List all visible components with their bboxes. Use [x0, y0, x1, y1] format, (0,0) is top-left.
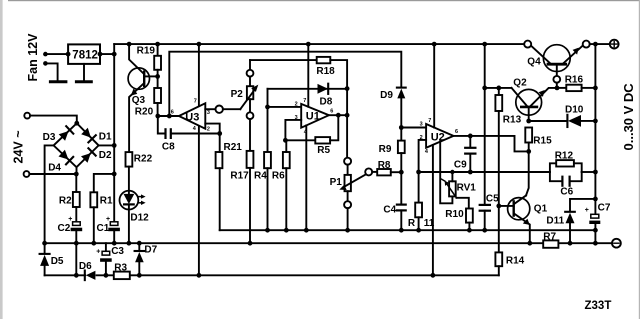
wire U1 pin7 to top bus	[307, 44, 309, 107]
transistor Q2	[512, 77, 558, 121]
svg-text:11: 11	[424, 218, 435, 229]
label 0...30 V DC	[621, 83, 636, 151]
wire 7812 ground pin	[83, 64, 85, 81]
svg-text:+: +	[96, 249, 100, 256]
wire 24V bottom to bridge	[29, 173, 76, 175]
wire U2 pin5 to RV1 bottom	[440, 142, 452, 204]
node feedback C9	[468, 170, 473, 175]
svg-text:RV1: RV1	[457, 183, 477, 194]
capacitor C8	[162, 129, 175, 153]
wire 24V top to bridge	[30, 116, 77, 124]
capacitor C9	[454, 136, 476, 172]
svg-text:C3: C3	[111, 246, 124, 257]
potentiometer P2	[231, 60, 259, 151]
wire right rail	[594, 44, 596, 214]
svg-text:R13: R13	[503, 114, 522, 125]
svg-text:U3: U3	[185, 111, 199, 123]
node upper bus P1	[345, 228, 350, 233]
wire feedback line	[419, 171, 550, 173]
svg-text:R4: R4	[254, 170, 267, 181]
node top bus C5 rail	[482, 42, 487, 47]
terminal plus	[610, 40, 619, 49]
svg-text:D1: D1	[99, 132, 112, 143]
node bridge AC bottom	[74, 172, 79, 177]
node U1 output P1 column	[345, 113, 350, 118]
wire D8 junction down to P1	[346, 89, 348, 158]
svg-text:R17: R17	[230, 170, 249, 181]
transistor Q4	[527, 45, 583, 88]
node 7812 left pin	[66, 52, 71, 57]
wire C2 column jumper to bottom bus	[75, 243, 77, 275]
svg-text:3: 3	[207, 110, 210, 116]
node bottom bus D7	[137, 273, 142, 278]
wire U2 pin4 to bottom bus	[432, 145, 434, 275]
svg-text:R14: R14	[506, 255, 525, 266]
svg-text:P2: P2	[231, 89, 244, 100]
node mid bus C1	[112, 241, 117, 246]
node Q4 base R16	[555, 86, 560, 91]
node U3 output riser	[167, 114, 172, 119]
resistor R5	[285, 115, 338, 156]
svg-text:7812: 7812	[72, 50, 98, 62]
node upper bus R6	[284, 228, 289, 233]
node top bus U2 pin7	[432, 42, 437, 47]
svg-text:C8: C8	[162, 141, 175, 152]
node upper bus U1 pin4	[304, 228, 309, 233]
svg-text:D6: D6	[79, 261, 92, 272]
wire U2 pin3	[401, 127, 426, 129]
resistor R17	[230, 151, 253, 243]
svg-text:U1: U1	[306, 111, 320, 123]
wire U2 pin7 to top bus	[433, 44, 435, 128]
wire C8 branch	[158, 116, 220, 134]
svg-text:7: 7	[194, 99, 197, 105]
node feedback U2 pin2	[416, 170, 421, 175]
resistor R7	[543, 232, 558, 248]
svg-text:D11: D11	[546, 216, 564, 227]
svg-text:R10: R10	[445, 209, 464, 220]
node U3 output R20	[155, 114, 160, 119]
wire RV1 wiper to R10	[456, 198, 468, 209]
svg-text:D7: D7	[144, 244, 157, 255]
node upper bus R4	[265, 228, 270, 233]
svg-text:R18: R18	[316, 66, 335, 77]
wire U3 pin4 to bottom bus	[198, 126, 200, 275]
resistor R13	[495, 88, 521, 253]
label Fan 12V	[26, 33, 40, 82]
node raw rail / 7812	[112, 52, 117, 57]
svg-text:R8: R8	[378, 160, 391, 171]
resistor R12	[550, 150, 582, 172]
wire second line (raw rail to D9)	[169, 52, 401, 116]
wire R13 Q2 collector line	[485, 87, 512, 89]
bridge diamond wires	[54, 123, 99, 174]
svg-text:P1: P1	[330, 177, 343, 188]
capacitor C6	[550, 172, 582, 198]
resistor R16	[557, 74, 595, 91]
resistor R4	[254, 89, 271, 230]
svg-text:Q4: Q4	[527, 57, 541, 68]
wire C5 bypass rail	[484, 44, 486, 205]
svg-text:R9: R9	[379, 144, 392, 155]
svg-text:D9: D9	[380, 90, 393, 101]
wire U3 pin3	[205, 108, 215, 110]
svg-text:D5: D5	[51, 256, 64, 267]
svg-text:7: 7	[428, 118, 431, 124]
svg-text:2: 2	[295, 101, 298, 107]
node mid bus D12	[126, 241, 131, 246]
resistor R15	[525, 128, 552, 152]
label Z33T	[585, 300, 612, 312]
node mid bus R17	[248, 241, 253, 246]
diode D10	[529, 104, 596, 127]
svg-text:C9: C9	[454, 160, 467, 171]
op-amp U3	[171, 99, 210, 133]
node mid bus bridge-left	[42, 241, 47, 246]
ground 7812	[76, 80, 91, 83]
node top bus right rail	[593, 42, 598, 47]
svg-text:6: 6	[171, 109, 174, 115]
wire fan- to ground	[45, 63, 57, 80]
svg-text:D12: D12	[130, 213, 149, 224]
node upper bus R11	[416, 228, 421, 233]
node upper bus C4	[399, 228, 404, 233]
resistor R21	[216, 134, 243, 231]
diode D3	[43, 126, 74, 143]
resistor R9	[379, 141, 405, 205]
svg-text:R22: R22	[134, 154, 153, 165]
node raw rail / R1 branch	[112, 172, 117, 177]
node feedback RV1	[450, 170, 454, 174]
resistor R3	[114, 263, 130, 279]
resistor R10	[445, 209, 473, 231]
diode D7	[135, 243, 158, 275]
capacitor C4	[383, 205, 405, 231]
node mid bus C7	[593, 241, 598, 246]
diode D4	[48, 150, 73, 174]
svg-text:24V ~: 24V ~	[12, 130, 26, 163]
node mid bus D11	[568, 241, 573, 246]
resistor R11	[408, 172, 435, 230]
node top bus U3 pin7	[197, 42, 202, 47]
node C5 rail R13 branch	[482, 86, 487, 91]
node R5 R6 pin3	[283, 138, 288, 143]
resistor R18	[316, 57, 347, 88]
wire U3 output	[158, 115, 179, 117]
svg-text:6: 6	[455, 129, 458, 135]
svg-text:R1: R1	[100, 196, 113, 207]
connector circle P1 wiper	[365, 168, 372, 175]
terminal fan-	[43, 61, 48, 66]
wire mid bus	[45, 242, 613, 244]
trimmer RV1	[442, 179, 477, 198]
resistor R8	[372, 160, 401, 176]
terminal 24V bottom	[24, 171, 30, 177]
transistor Q1	[499, 151, 548, 243]
svg-text:R19: R19	[137, 46, 156, 57]
wire U3 pin7 to top bus	[198, 44, 200, 106]
diode D6	[79, 261, 96, 281]
terminal minus	[612, 239, 621, 248]
svg-text:D10: D10	[565, 104, 584, 115]
wire 7812 output to raw rail	[100, 53, 114, 55]
node U2 output C9	[468, 134, 473, 139]
node mid bus D7	[137, 241, 142, 246]
diode D1	[81, 128, 112, 143]
ground fan	[50, 80, 66, 83]
node upper bus end C7	[593, 228, 598, 233]
transistor Q3	[128, 44, 158, 152]
node right rail D10	[593, 119, 598, 124]
wire fan+ to 7812	[45, 53, 68, 55]
svg-text:6: 6	[330, 108, 333, 114]
svg-text:0...30 V DC: 0...30 V DC	[621, 83, 636, 151]
wire U3 pin2	[205, 124, 219, 134]
wire upper bus	[220, 229, 596, 231]
node top bus R19	[155, 42, 160, 47]
wire bridge right vertex to raw rail	[99, 144, 115, 146]
svg-text:R7: R7	[543, 232, 556, 243]
wire raw rail riser to top bus	[113, 44, 115, 54]
svg-text:Q3: Q3	[132, 95, 146, 106]
resistor R6	[272, 140, 290, 230]
node R8 rail	[399, 170, 404, 175]
svg-text:C7: C7	[598, 203, 611, 214]
node top bus Q3	[127, 42, 132, 47]
terminal 24V top	[24, 113, 30, 119]
node raw rail bridge	[112, 143, 117, 148]
capacitor C7	[585, 203, 611, 244]
wire D8 line	[268, 88, 348, 90]
capacitor C2	[58, 216, 83, 243]
svg-text:R: R	[408, 218, 416, 229]
diode D11	[546, 199, 595, 243]
svg-text:2: 2	[207, 127, 210, 133]
diode D8	[318, 84, 333, 108]
svg-text:C4: C4	[383, 205, 396, 216]
node bottom bus U2 pin4	[431, 273, 436, 278]
node mid bus R1	[91, 241, 96, 246]
wire raw rail down to C1	[113, 54, 115, 222]
wire R12 C6 to right rail	[582, 171, 596, 173]
svg-text:Q2: Q2	[513, 77, 527, 88]
node mid bus C2	[74, 241, 79, 246]
resistor R20	[135, 88, 161, 117]
svg-text:Fan 12V: Fan 12V	[26, 33, 40, 82]
node D8 R18 junction	[345, 86, 350, 91]
resistor R14	[495, 252, 524, 275]
node U1 output R5	[336, 113, 341, 118]
svg-text:D2: D2	[99, 150, 112, 161]
svg-text:D8: D8	[320, 96, 333, 107]
wire top bus right / plus terminal	[590, 43, 610, 45]
svg-text:R2: R2	[59, 196, 72, 207]
connector circle Q4 collector	[524, 41, 531, 48]
resistor R22	[126, 152, 153, 192]
svg-text:7: 7	[303, 98, 306, 104]
op-amp U2	[420, 118, 458, 155]
diode D9	[380, 88, 406, 141]
capacitor C1	[97, 216, 120, 243]
wire U1 pin2	[268, 106, 302, 108]
svg-text:Z33T: Z33T	[585, 300, 612, 312]
capacitor C3	[96, 243, 124, 275]
svg-text:C5: C5	[486, 193, 499, 204]
node R19 R20 base junction	[155, 74, 160, 79]
svg-text:C6: C6	[560, 187, 573, 198]
potentiometer P1	[330, 158, 367, 231]
svg-text:+: +	[585, 207, 589, 214]
svg-text:R16: R16	[565, 74, 584, 85]
node U1 pin2 R4	[265, 105, 270, 110]
wire RV1 top to feedback line	[451, 172, 453, 181]
node right rail R16	[593, 86, 598, 91]
node D9 rail U2 pin3	[399, 125, 404, 130]
node bottom bus U3 pin4	[197, 273, 202, 278]
node upper bus C5	[482, 228, 487, 233]
wire U1 pin4 to upper bus	[305, 125, 307, 230]
node right rail D11 branch	[593, 197, 598, 202]
svg-text:R12: R12	[555, 150, 574, 161]
wire R18 line	[250, 59, 317, 61]
wire U2 output	[454, 136, 529, 152]
svg-text:R6: R6	[272, 170, 285, 181]
svg-text:U2: U2	[431, 131, 445, 143]
svg-text:R15: R15	[533, 135, 552, 146]
svg-text:R3: R3	[114, 263, 127, 274]
resistor R2	[59, 174, 80, 222]
op-amp U1	[295, 98, 334, 136]
wire bottom bus	[45, 274, 499, 276]
node R13 rail Q1 base	[496, 204, 501, 209]
node 7812 right pin	[98, 52, 103, 57]
label 24V ~	[12, 130, 26, 163]
connector circle Q4 emitter	[583, 41, 590, 48]
node Q2 base D10	[526, 119, 531, 124]
svg-text:Q1: Q1	[534, 203, 548, 214]
svg-text:D3: D3	[43, 132, 56, 143]
node upper bus R10	[467, 228, 472, 233]
diode D2	[81, 148, 112, 163]
terminal fan+	[43, 52, 48, 57]
wire pin3 circle to P2 wiper	[223, 108, 240, 110]
svg-text:R21: R21	[224, 142, 243, 153]
resistor R19	[137, 44, 161, 88]
node C8 R21 pin2	[217, 131, 222, 136]
wire U2 pin2	[419, 140, 427, 172]
resistor R1	[90, 192, 113, 243]
svg-text:C1: C1	[97, 223, 110, 234]
capacitor C5	[480, 193, 499, 230]
regulator 7812	[68, 44, 100, 64]
node mid bus Q1 emitter	[527, 241, 532, 246]
wire R1 branch	[94, 174, 114, 192]
node top bus U1 pin7	[306, 42, 311, 47]
wire U1 pin3	[285, 120, 301, 140]
svg-text:R20: R20	[135, 106, 154, 117]
node bridge top vertex	[74, 121, 79, 126]
svg-text:C2: C2	[58, 223, 71, 234]
connector circle U3 pin3	[216, 106, 223, 113]
node right rail R12 C6	[593, 170, 598, 175]
wire bridge left vertex to mid bus	[45, 145, 54, 243]
svg-text:R5: R5	[317, 145, 330, 156]
node bottom bus C3	[104, 273, 109, 278]
svg-text:D4: D4	[48, 163, 61, 174]
svg-text:+: +	[68, 216, 72, 223]
diode D5	[40, 243, 64, 275]
wire top bus	[114, 43, 524, 45]
wire U1 output	[329, 114, 347, 116]
svg-text:+: +	[106, 216, 110, 223]
node R13 top	[496, 86, 501, 91]
LED D12	[119, 191, 149, 243]
node bottom bus C2 jumper	[74, 273, 79, 278]
node R15 U2out Q1 collector	[526, 149, 531, 154]
